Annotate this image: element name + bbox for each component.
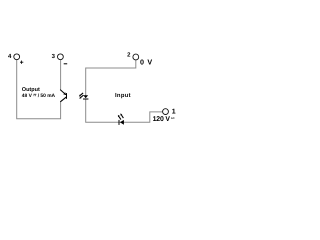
D2 light arrow left <box>119 117 121 120</box>
wire: from LED D1 down, right along bottom, up, right to terminal 1 <box>86 99 163 122</box>
transistor Q1 (phototransistor, base bar facing LED) <box>60 90 67 102</box>
transistor base bar <box>66 93 67 99</box>
D1 light arrow upper <box>80 93 83 95</box>
terminal 1 <box>163 109 169 115</box>
D1 cathode bar <box>83 99 88 100</box>
wire: from terminal 2 down, left, down to LED D1 <box>86 60 136 95</box>
svg-text:Output: Output <box>22 87 40 93</box>
wire: left loop from terminal 4 down, along bottom, up to transistor emitter <box>17 60 61 119</box>
D1 light arrow lower <box>81 95 84 97</box>
D2 cathode bar <box>119 120 120 125</box>
D1 triangle <box>83 95 88 98</box>
svg-text:AC: AC <box>171 117 175 120</box>
transistor lower lead <box>60 97 66 102</box>
svg-text:1: 1 <box>172 108 176 115</box>
wire: transistor collector up to terminal 3 <box>60 60 62 90</box>
transistor upper lead with arrow <box>60 90 66 95</box>
svg-text:0 V: 0 V <box>140 58 153 67</box>
D2 triangle <box>120 120 124 125</box>
svg-text:48 V: 48 V <box>22 93 33 99</box>
terminal 3 <box>58 54 64 60</box>
svg-text:120 V: 120 V <box>153 116 171 123</box>
label: plus polarity at terminal 4 <box>20 61 23 64</box>
svg-text:/ 50 mA: / 50 mA <box>38 93 56 99</box>
LED D2 (input indicator, horizontal, pointing left) <box>118 113 124 125</box>
svg-text:Input: Input <box>115 92 131 99</box>
D2 light arrow right <box>121 115 123 118</box>
LED D1 (optocoupler emitter, vertical, pointing down) <box>79 93 89 100</box>
label: minus polarity at terminal 3 <box>64 63 67 65</box>
terminal 2 <box>133 54 139 60</box>
terminal 4 <box>14 54 20 60</box>
